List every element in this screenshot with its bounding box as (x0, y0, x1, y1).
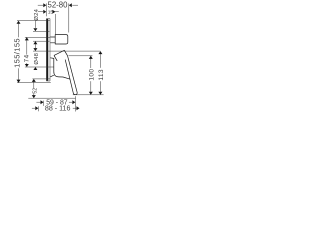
svg-text:155/155: 155/155 (12, 38, 21, 68)
svg-text:100: 100 (88, 69, 95, 81)
svg-text:52-80: 52-80 (48, 0, 69, 9)
svg-text:Ø48: Ø48 (34, 52, 40, 64)
svg-text:Ø24: Ø24 (34, 8, 40, 20)
svg-text:52: 52 (33, 88, 39, 94)
svg-text:113: 113 (98, 69, 105, 80)
svg-text:15: 15 (48, 9, 54, 15)
svg-text:88 - 116: 88 - 116 (45, 105, 71, 113)
svg-text:74: 74 (24, 54, 31, 62)
